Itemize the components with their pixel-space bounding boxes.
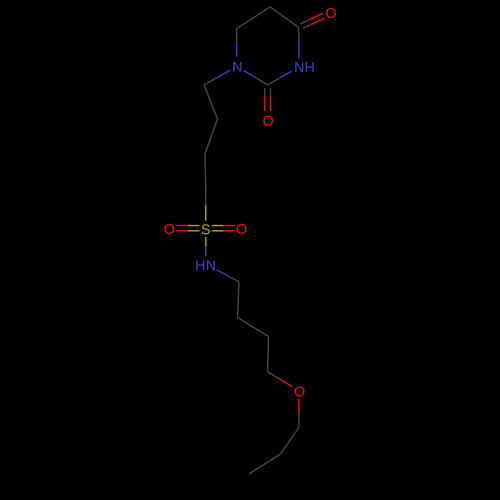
- bonds C6-C5-C4 (ring top): [237, 7, 299, 29]
- double bond S=O right: [212, 230, 224, 232]
- atom label N5 (HN) - N: [207, 260, 215, 270]
- atom label N3 (NH) - H: [306, 62, 314, 72]
- atom label O6 (ether): [295, 386, 305, 396]
- bond Cb4-O6: [268, 372, 280, 379]
- atom label O2: [263, 116, 273, 126]
- bond N1-CH2a: [217, 70, 230, 77]
- bond S-N5: [205, 237, 207, 247]
- chain A bonds CH2a-Ca2-Ca3-Ca4: [204, 85, 218, 190]
- bond N1-C2: [244, 71, 256, 78]
- bond C2-N3: [268, 78, 280, 85]
- atom label O4: [326, 8, 336, 18]
- double bond S=O left: [188, 225, 200, 227]
- atom label N1: [233, 62, 241, 72]
- double bond C4=O4: [303, 24, 312, 28]
- bond N1-C6: [236, 44, 238, 57]
- atom label O left of S: [164, 224, 174, 234]
- atom label S: [202, 224, 210, 234]
- tail bonds Ct1-Ct2-Ct3: [249, 428, 299, 475]
- atom label N3 (NH) - N: [295, 62, 303, 72]
- atom label N5 (HN) - H: [196, 260, 204, 270]
- bond Ca4-S: [205, 190, 207, 205]
- atom label O right of S: [237, 224, 247, 234]
- bond C4-N3: [298, 28, 300, 43]
- bond N5-CH2b: [217, 270, 228, 276]
- double bond C2=O2: [264, 88, 266, 96]
- bond O6-Ct1: [298, 398, 300, 413]
- chain B bonds CH2b-Cb2-Cb3-Cb4: [238, 282, 269, 372]
